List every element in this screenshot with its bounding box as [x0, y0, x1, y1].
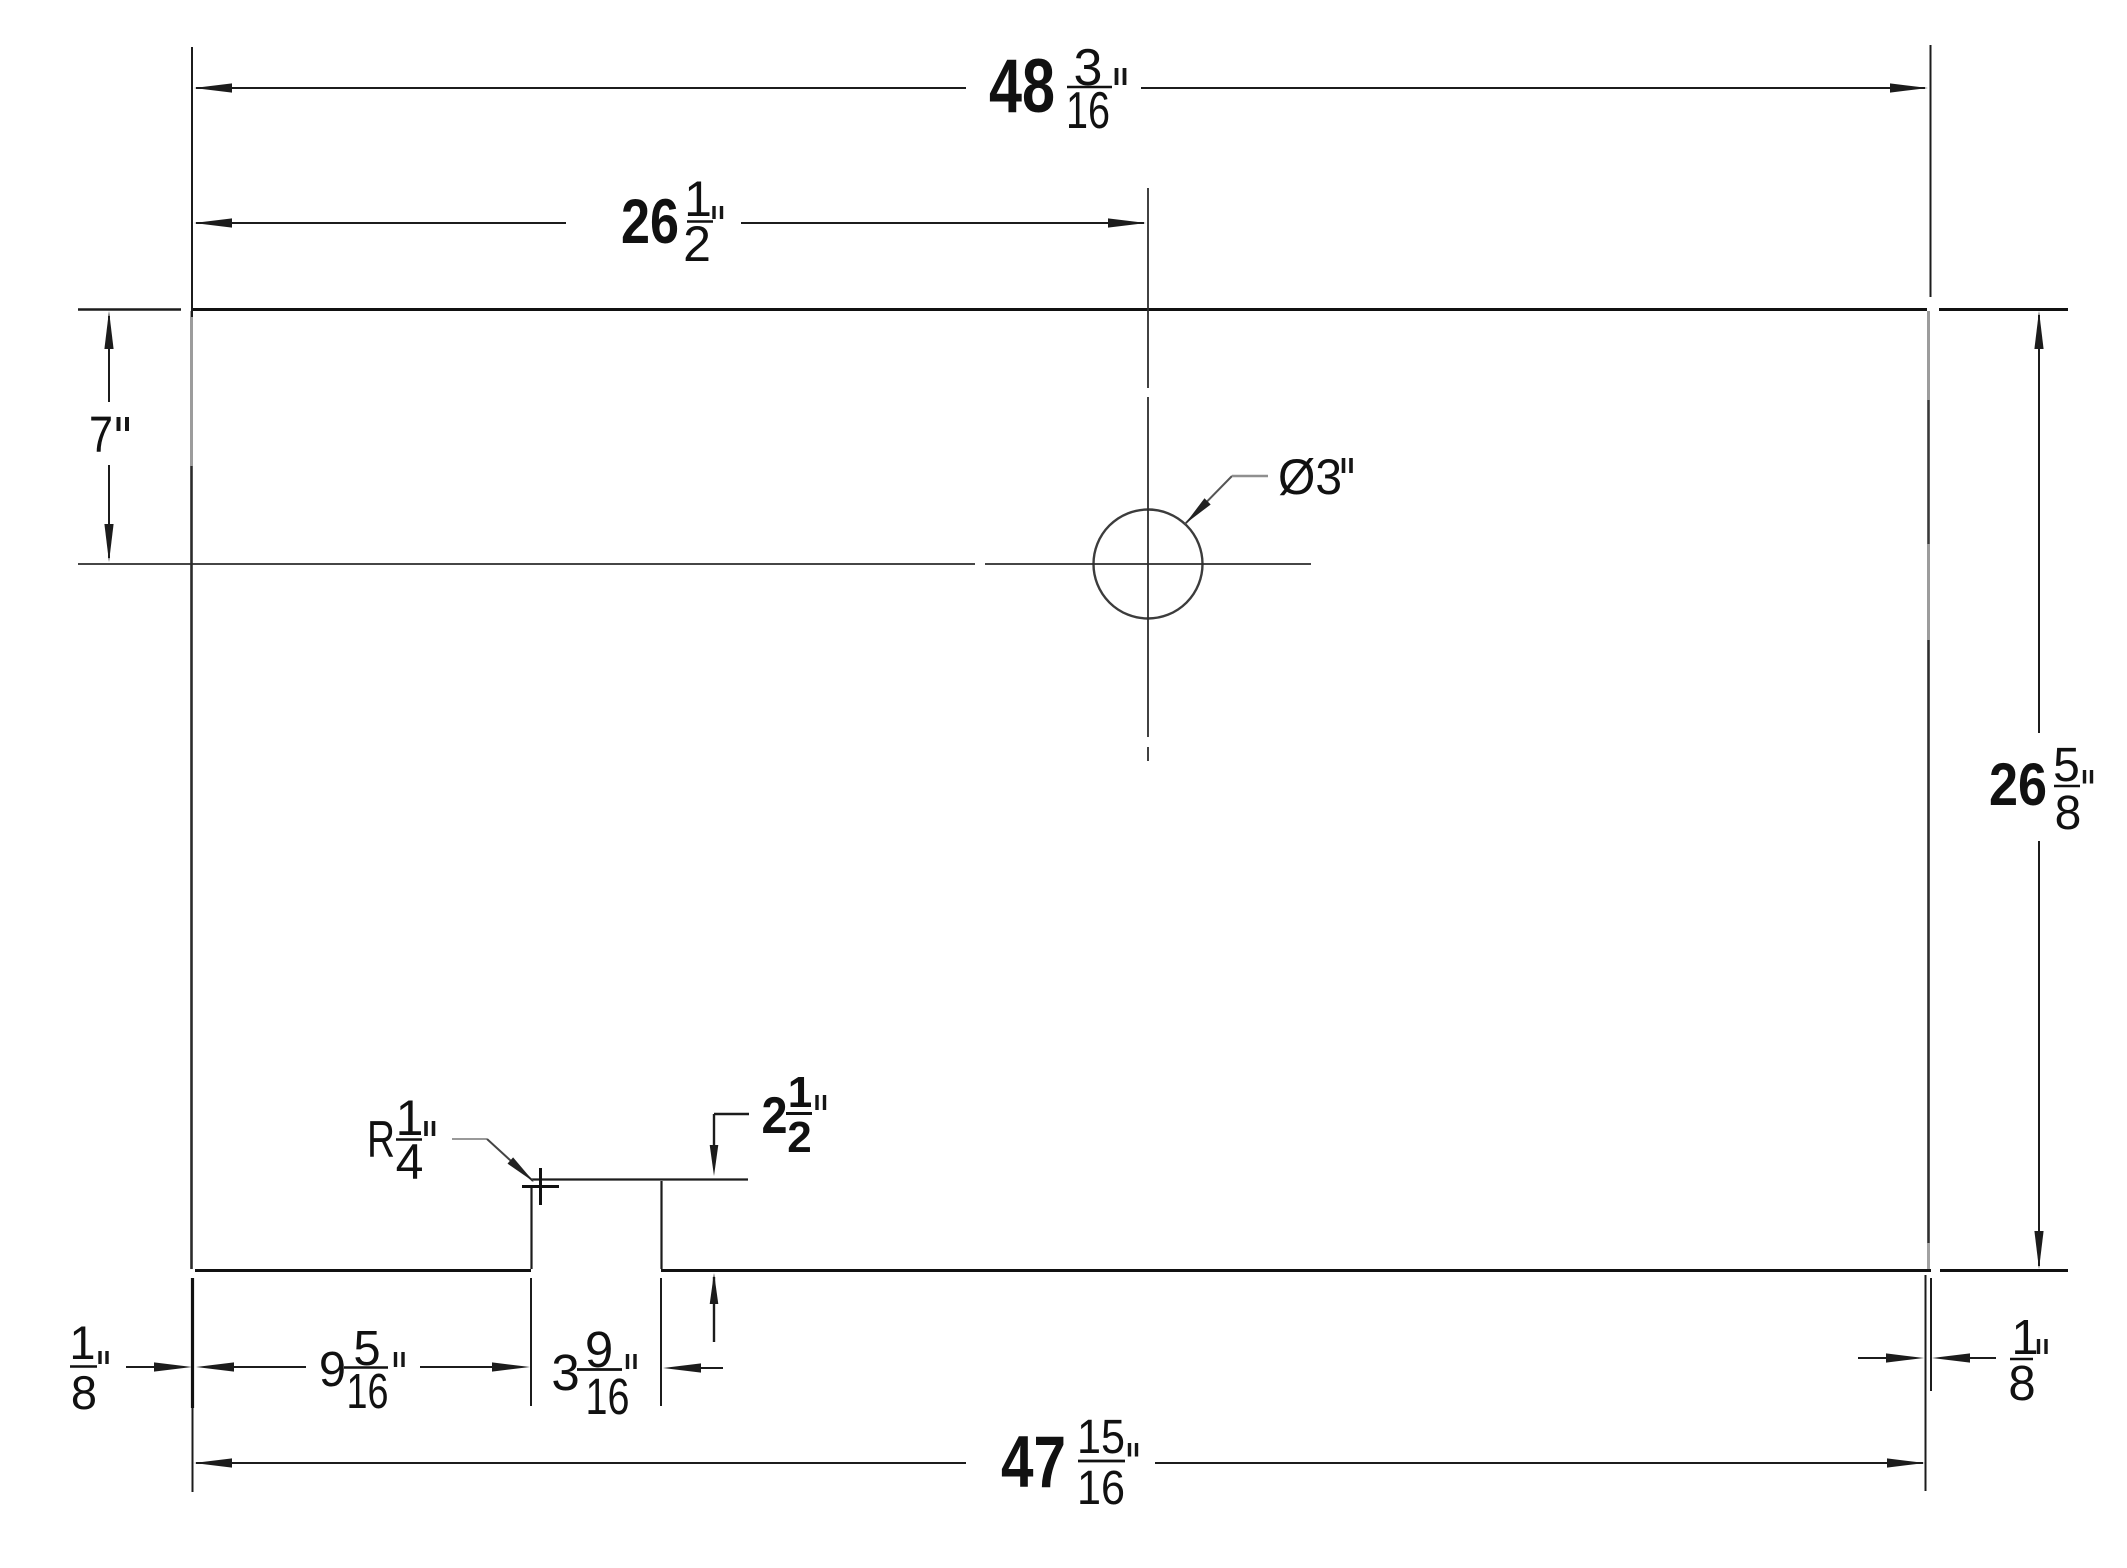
label 1/8 left ditto	[98, 1351, 101, 1364]
label R1/4 ditto	[424, 1121, 428, 1136]
arrow 9 5/16 left	[196, 1362, 234, 1371]
svg-text:26: 26	[621, 187, 679, 257]
svg-text:48: 48	[989, 44, 1055, 129]
svg-text:8: 8	[2055, 787, 2082, 840]
panel right edge	[1927, 311, 1930, 400]
arrow left 48 3/16	[194, 83, 232, 92]
extension line right short	[1930, 1278, 1932, 1391]
panel left edge	[190, 311, 193, 466]
extension line notch left	[530, 1278, 532, 1406]
svg-text:1: 1	[788, 1068, 812, 1117]
svg-text:2: 2	[787, 1113, 811, 1162]
extension line right bottom	[1925, 1275, 1927, 1491]
svg-text:3: 3	[551, 1344, 579, 1401]
svg-text:16: 16	[347, 1365, 389, 1419]
label 2 1/2 ditto	[815, 1095, 818, 1110]
svg-text:1: 1	[69, 1316, 95, 1369]
arrow 9 5/16 right	[492, 1362, 530, 1371]
arrow down 26 5/8	[2034, 1231, 2043, 1269]
extension line notch right	[660, 1278, 662, 1406]
panel top edge extension right	[1939, 308, 2068, 311]
panel top edge	[193, 308, 1927, 311]
arrow 1/8 right a	[1886, 1353, 1924, 1362]
notch top edge	[531, 1178, 748, 1180]
svg-text:15: 15	[1077, 1411, 1125, 1464]
svg-text:8: 8	[71, 1366, 97, 1419]
label 26 5/8 ditto	[2083, 770, 2086, 784]
svg-text:16: 16	[1066, 82, 1110, 140]
arrow right 48 3/16	[1890, 83, 1928, 92]
arrow left 26 1/2	[194, 218, 232, 227]
svg-text:2: 2	[683, 216, 711, 272]
label 26 1/2 ditto	[712, 206, 715, 219]
dim line 9 5/16	[231, 1366, 306, 1368]
svg-text:2: 2	[762, 1087, 788, 1145]
dim line 7in	[108, 316, 110, 402]
hole vertical centerline	[1147, 188, 1149, 388]
fillet center cross	[522, 1185, 559, 1188]
dim line 3 9/16 stub	[698, 1367, 723, 1369]
arrow right 47 15/16	[1887, 1458, 1925, 1467]
notch left side	[530, 1186, 532, 1269]
dim line 47 15/16	[196, 1462, 966, 1464]
svg-text:7: 7	[89, 406, 113, 463]
arrow up 26 5/8	[2034, 311, 2043, 349]
leader O3 diagonal	[1185, 476, 1232, 524]
arrow 1/8 right b	[1932, 1353, 1970, 1362]
svg-text:R: R	[367, 1111, 395, 1169]
hole circle O3in	[1094, 510, 1203, 619]
leader R1/4 horizontal	[452, 1138, 487, 1140]
extension tick top left	[78, 308, 181, 310]
panel bottom edge right of notch	[661, 1269, 1931, 1272]
label 3 9/16 ditto	[626, 1354, 629, 1369]
panel bottom edge left of notch	[195, 1269, 531, 1272]
leader O3 horizontal	[1232, 475, 1268, 477]
svg-text:16: 16	[1077, 1462, 1125, 1515]
notch right side	[660, 1181, 662, 1269]
label 9 5/16 ditto	[394, 1352, 397, 1367]
dim 2 1/2 bracket	[714, 1113, 749, 1115]
label 1/8 right ditto	[2037, 1339, 2040, 1354]
leader R1/4 arrowhead	[508, 1157, 535, 1182]
dim 2 1/2 arrow up	[710, 1273, 719, 1304]
arrow 1/8 left	[154, 1362, 192, 1371]
arrow up 7in	[104, 311, 113, 349]
dim line 1/8 left	[126, 1366, 160, 1368]
svg-text:9: 9	[319, 1343, 346, 1397]
svg-text:26: 26	[1989, 751, 2047, 818]
arrow 3 9/16 right-outside	[663, 1363, 701, 1372]
svg-text:5: 5	[2053, 739, 2080, 792]
svg-text:16: 16	[586, 1368, 630, 1425]
leader R1/4 diagonal	[487, 1139, 533, 1181]
label 47 15/16 ditto	[1128, 1443, 1131, 1457]
dim line 48 3/16	[196, 87, 966, 89]
label 48 ditto	[1115, 68, 1119, 85]
label 7 ditto	[117, 417, 121, 431]
dim 2 1/2 arrow down	[710, 1145, 719, 1176]
arrow left 47 15/16	[194, 1458, 232, 1467]
panel bottom edge extension right	[1940, 1269, 2068, 1272]
extension line left top	[191, 47, 193, 317]
label O3 ditto	[1342, 458, 1346, 473]
leader O3 arrowhead	[1185, 498, 1211, 524]
svg-text:4: 4	[396, 1134, 424, 1190]
dim line 1/8 right-right part	[1967, 1357, 1996, 1359]
dim line 26 5/8	[2038, 315, 2040, 733]
dim line 26 1/2	[196, 222, 566, 224]
arrow right 26 1/2	[1108, 218, 1146, 227]
svg-text:8: 8	[2008, 1357, 2035, 1411]
extension line right top	[1930, 45, 1932, 297]
extension line left bottom	[191, 1278, 194, 1408]
svg-text:Ø3: Ø3	[1278, 449, 1342, 505]
svg-text:47: 47	[1001, 1422, 1066, 1503]
dim line 1/8 right-left part	[1858, 1357, 1893, 1359]
arrow down 7in	[104, 524, 113, 562]
hole horizontal centerline	[78, 563, 975, 565]
dim 2 1/2 lower line	[713, 1277, 715, 1342]
